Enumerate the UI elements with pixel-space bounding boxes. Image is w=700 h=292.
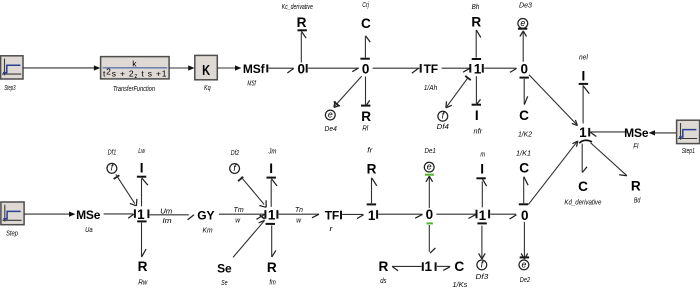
label Kc_derivative (282, 4, 313, 11)
svg-text:MSe: MSe (624, 126, 649, 140)
bond MSf to 0a (267, 64, 294, 73)
label nel (579, 55, 588, 62)
bond 1b to I nel (579, 84, 590, 124)
resistor R Kc_derivative (297, 15, 307, 30)
label 1/K2 (518, 131, 532, 138)
bond 1d to TF r (277, 210, 319, 219)
label Step1 (682, 148, 695, 155)
label De1 (425, 148, 436, 155)
svg-text:Tn: Tn (295, 207, 303, 214)
svg-text:GY: GY (197, 209, 214, 223)
svg-text:TF: TF (325, 209, 339, 223)
svg-text:R: R (631, 178, 641, 193)
capacitor C Kd_derivative (578, 179, 588, 194)
svg-text:Rl: Rl (362, 126, 368, 133)
junction 0c (521, 62, 529, 77)
svg-text:MSe: MSe (76, 208, 101, 222)
inertia I Jm (269, 161, 273, 176)
inertia I Lw (140, 161, 144, 176)
bond TF to 1a (442, 64, 471, 73)
label Tm (234, 207, 244, 214)
label Kd_derivative (564, 200, 601, 207)
capacitor C 1/K2 (519, 108, 529, 123)
svg-text:Kc_derivative: Kc_derivative (282, 4, 313, 11)
block TransferFunction (101, 57, 170, 81)
svg-text:TF: TF (424, 62, 438, 76)
arrowhead into MSe Ua (69, 212, 75, 217)
bond 1f to R ds (392, 262, 423, 271)
resistor R Bd (631, 178, 641, 193)
bond 1b to R Bd (590, 143, 627, 176)
svg-text:Bd: Bd (634, 197, 641, 204)
label fr (367, 148, 373, 155)
wire Step3 to TransferFunction (23, 67, 94, 69)
svg-text:1/Ks: 1/Ks (452, 282, 467, 289)
bond 1a to I nfr (472, 76, 481, 105)
svg-text:De4: De4 (325, 126, 337, 133)
svg-text:Crj: Crj (362, 2, 369, 9)
svg-text:1: 1 (425, 259, 433, 274)
wire Step1 to MSe (649, 130, 677, 135)
label Tn (295, 207, 303, 214)
label Um (160, 209, 172, 216)
svg-text:R: R (367, 161, 377, 176)
svg-text:Step: Step (6, 231, 18, 238)
bond 1f to C 1/Ks (436, 262, 451, 271)
signal sensor Df1 to 1c (114, 175, 137, 206)
label 1/Ah (424, 85, 437, 92)
svg-text:Kd_derivative: Kd_derivative (564, 200, 601, 207)
svg-text:1: 1 (268, 208, 276, 223)
svg-text:0: 0 (362, 62, 370, 77)
label Im (162, 218, 171, 225)
label m (480, 151, 485, 158)
junction 1b (579, 125, 587, 140)
arrowhead into TransferFunction (94, 65, 100, 70)
wire Kq to MSf (217, 67, 235, 69)
signal 1a to sensor Df4 (446, 76, 471, 108)
sensor De1 (424, 162, 434, 173)
svg-text:C: C (578, 179, 588, 194)
svg-text:0: 0 (426, 207, 434, 222)
bond 1c to GY (148, 210, 194, 220)
resistor R fm (267, 260, 277, 275)
svg-text:Lw: Lw (138, 148, 146, 155)
svg-text:0: 0 (521, 62, 529, 77)
signal 0d to sensor De1 (425, 175, 434, 208)
source MSe Ua (76, 208, 101, 222)
sensor Df1 (107, 163, 117, 174)
label Df3 (476, 274, 489, 281)
transformer TF 1/Ah (424, 62, 438, 76)
signal sensor Df2 to 1d (238, 177, 266, 208)
svg-text:Se: Se (217, 262, 232, 276)
sensor Df3 (477, 259, 487, 270)
svg-text:R: R (297, 15, 307, 30)
bond 1a to 0c (483, 64, 517, 73)
bond 1g to 0f (489, 210, 516, 219)
bond 1e to 0d (377, 210, 422, 219)
svg-text:Jm: Jm (267, 149, 276, 156)
bond 0a to R Kc_derivative (298, 30, 307, 62)
capacitor C Crj (361, 16, 371, 31)
source block Step (1, 202, 24, 225)
svg-text:K: K (202, 63, 210, 79)
bond 0c to 1b (529, 75, 577, 126)
resistor R ds (378, 259, 388, 274)
junction 1a (474, 62, 482, 77)
arrowhead into Kq (188, 65, 194, 70)
source block Step3 (1, 56, 23, 79)
label De3 (519, 3, 532, 10)
label 1/K1 (516, 151, 531, 158)
junction 0d (426, 207, 434, 222)
label Rw (138, 279, 148, 286)
label w2 (296, 218, 302, 225)
bond 0f to C 1/K1 (519, 177, 528, 205)
svg-text:TransferFunction: TransferFunction (113, 86, 155, 93)
capacitor C 1/Ks (454, 259, 464, 274)
wire TransferFunction to Kq (169, 67, 189, 69)
svg-text:Se: Se (221, 280, 227, 287)
label Bd (634, 197, 641, 204)
inertia I m (480, 161, 484, 176)
bond 0d to 1f (427, 223, 436, 253)
signal 0f to sensor De2 (520, 222, 529, 259)
junction 1f (425, 259, 433, 274)
label Fl (633, 144, 638, 151)
bond TF to 1e (341, 211, 364, 220)
gain block Kq (195, 55, 218, 79)
svg-text:Rw: Rw (138, 279, 148, 286)
inertia I nel (582, 68, 586, 83)
svg-text:Kq: Kq (204, 85, 211, 92)
sensor Df4 (438, 111, 448, 122)
svg-text:nfr: nfr (474, 128, 483, 135)
label w1 (235, 218, 241, 225)
svg-text:e: e (521, 259, 526, 269)
svg-text:1: 1 (137, 207, 145, 222)
label r (330, 226, 334, 233)
bond 0b to TF (373, 64, 421, 73)
svg-text:e: e (427, 162, 432, 172)
svg-text:I: I (475, 108, 479, 123)
bond 1c to R Rw (137, 221, 146, 257)
bond 1c to I Lw (137, 177, 148, 207)
bond Se to 1d (233, 215, 265, 257)
svg-text:1/K2: 1/K2 (518, 131, 532, 138)
label Df1 (108, 149, 117, 156)
junction 1d (268, 208, 276, 223)
source MSe Fl (624, 126, 649, 140)
svg-text:k: k (132, 58, 137, 68)
svg-text:1/K1: 1/K1 (516, 151, 531, 158)
svg-text:MSf: MSf (243, 62, 266, 76)
bond 0d to 1g (436, 210, 476, 219)
bond 1e to R fr (367, 178, 377, 205)
signal 1g to sensor Df3 (477, 223, 486, 259)
svg-text:fm: fm (269, 280, 276, 287)
svg-text:0: 0 (298, 62, 306, 77)
svg-text:R: R (378, 259, 388, 274)
svg-text:R: R (471, 15, 481, 30)
svg-text:e: e (328, 109, 333, 119)
source MSf (243, 62, 266, 76)
bond 1g to I m (476, 178, 486, 207)
sensor Df2 (230, 163, 240, 174)
bond MSe to 1c (104, 209, 135, 218)
gyrator GY Km (197, 209, 214, 223)
bond 0a to 0b (307, 64, 359, 73)
label Lw (138, 148, 146, 155)
sensor De4 (325, 109, 335, 120)
svg-text:De2: De2 (520, 277, 530, 284)
bond 0c to C 1/K2 (520, 78, 529, 105)
svg-text:De1: De1 (425, 148, 436, 155)
wire Step to MSe (24, 213, 69, 215)
label MSf (247, 81, 256, 88)
label Step (6, 231, 18, 238)
junction 1c (137, 207, 145, 222)
svg-text:Df4: Df4 (437, 124, 449, 131)
svg-text:MSf: MSf (247, 81, 256, 88)
label Rl (362, 126, 368, 133)
svg-text:Km: Km (203, 228, 213, 235)
svg-text:R: R (138, 259, 148, 274)
label De2 (520, 277, 530, 284)
svg-text:De3: De3 (519, 3, 532, 10)
source block Step1 (677, 120, 700, 143)
svg-text:Df3: Df3 (476, 274, 489, 281)
bond 0b to R Rl (361, 77, 370, 107)
capacitor C 1/K1 (519, 160, 529, 175)
signal 0b to sensor De4 (334, 76, 362, 107)
label Km (203, 228, 213, 235)
bond 0b to C Crj (360, 36, 370, 59)
signal 0c to sensor De3 (518, 29, 527, 62)
inertia I nfr (475, 108, 479, 123)
svg-text:C: C (361, 16, 371, 31)
svg-text:Fl: Fl (633, 144, 638, 151)
svg-text:Um: Um (160, 209, 172, 216)
bond 1b to C Kd_derivative (579, 140, 592, 172)
bond 1a to R Bh (472, 30, 481, 59)
svg-text:fr: fr (367, 148, 373, 155)
bond 1d to R fm (266, 224, 276, 257)
label Jm (267, 149, 276, 156)
svg-text:R: R (361, 109, 371, 124)
junction 0a (298, 62, 306, 77)
sensor De3 (518, 18, 528, 29)
svg-text:1: 1 (579, 125, 587, 140)
label De4 (325, 126, 337, 133)
resistor R fr (367, 161, 377, 176)
svg-text:1/Ah: 1/Ah (424, 85, 437, 92)
svg-text:C: C (519, 108, 529, 123)
svg-text:C: C (519, 160, 529, 175)
label nfr (474, 128, 483, 135)
label 1/Ks (452, 282, 467, 289)
label Step3 (4, 85, 15, 92)
svg-text:nel: nel (579, 55, 588, 62)
label Df4 (437, 124, 449, 131)
svg-text:Step3: Step3 (4, 85, 15, 92)
svg-text:ds: ds (380, 278, 387, 285)
label ds (380, 278, 387, 285)
sensor De2 (519, 259, 529, 270)
svg-text:1: 1 (474, 62, 482, 77)
svg-text:0: 0 (521, 208, 529, 223)
svg-text:I: I (582, 68, 586, 83)
label Crj (362, 2, 369, 9)
label Bh (472, 4, 480, 11)
resistor R Rw (138, 259, 148, 274)
junction 1e (368, 208, 376, 223)
svg-text:m: m (480, 151, 485, 158)
resistor R Rl (361, 109, 371, 124)
svg-text:Bh: Bh (472, 4, 480, 11)
transformer TF r (325, 209, 339, 223)
svg-text:I: I (140, 161, 144, 176)
bond 0f to 1b (528, 141, 577, 204)
label Se (221, 280, 227, 287)
bond 1d to I Jm (267, 178, 278, 207)
label Df2 (231, 150, 239, 157)
label Ua (85, 227, 93, 234)
svg-text:I: I (269, 161, 273, 176)
svg-text:Df2: Df2 (231, 150, 239, 157)
svg-text:Ua: Ua (85, 227, 93, 234)
source Se (217, 262, 232, 276)
bond GY to 1d (219, 210, 266, 219)
svg-text:Step1: Step1 (682, 148, 695, 155)
label TransferFunction (113, 86, 155, 93)
bond MSe Fl to 1b (589, 128, 627, 137)
junction 0f (521, 208, 529, 223)
svg-text:C: C (454, 259, 464, 274)
svg-text:R: R (267, 260, 277, 275)
svg-text:1: 1 (479, 208, 487, 223)
svg-text:e: e (520, 18, 525, 28)
svg-text:I: I (480, 161, 484, 176)
junction 0b (362, 62, 370, 77)
svg-text:Df1: Df1 (108, 149, 117, 156)
arrowhead into MSf (235, 65, 241, 70)
svg-text:Im: Im (162, 218, 171, 225)
svg-text:1: 1 (368, 208, 376, 223)
junction 1g (479, 208, 487, 223)
label fm (269, 280, 276, 287)
resistor R Bh (471, 15, 481, 30)
svg-text:Tm: Tm (234, 207, 244, 214)
label Kq (204, 85, 211, 92)
